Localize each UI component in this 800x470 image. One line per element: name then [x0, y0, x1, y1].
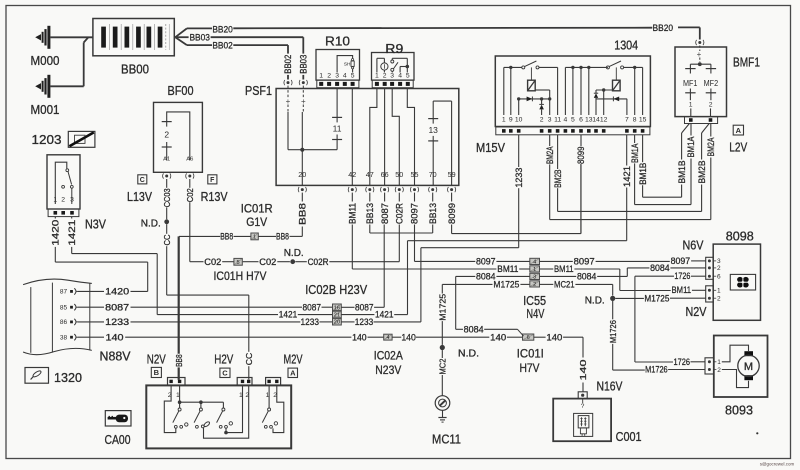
svg-text:2: 2	[717, 296, 721, 303]
wire 8097 row1	[415, 260, 476, 262]
svg-text:H7V: H7V	[520, 361, 540, 375]
svg-text:M: M	[744, 361, 753, 373]
svg-text:A6: A6	[186, 157, 193, 163]
1304 left lower rail	[519, 98, 550, 100]
wire N2V pin2 inside	[164, 385, 176, 432]
motor unit 8093	[714, 336, 768, 398]
svg-text:BB20: BB20	[653, 23, 674, 34]
wire 140 row	[78, 336, 104, 338]
svg-text:140: 140	[352, 332, 367, 342]
svg-text:3: 3	[548, 117, 552, 124]
wire BM1A to BMF1	[690, 124, 692, 136]
splice N.D. on CC	[164, 219, 169, 224]
svg-text:BM1B: BM1B	[677, 161, 687, 184]
svg-text:47: 47	[366, 170, 374, 179]
svg-text:R9: R9	[385, 41, 403, 56]
svg-text:BM2B: BM2B	[697, 161, 707, 184]
1304 left relay coil	[528, 80, 536, 91]
svg-text:M1725: M1725	[437, 294, 447, 321]
svg-text:140: 140	[546, 332, 562, 342]
svg-text:IC01H H7V: IC01H H7V	[214, 269, 267, 283]
svg-text:N.D.: N.D.	[284, 248, 304, 259]
svg-text:1: 1	[53, 196, 57, 203]
svg-text:M1725: M1725	[493, 280, 519, 290]
relay R9 switch	[391, 60, 394, 63]
connector box IC01I 6	[523, 334, 534, 340]
svg-text:21: 21	[334, 313, 340, 319]
junction node pin20	[300, 148, 304, 152]
relay R10 socket strip	[317, 80, 359, 88]
splice N.D. near N6V	[610, 296, 615, 301]
wire 1233 horizontal run	[421, 247, 519, 249]
svg-text:8: 8	[633, 117, 637, 124]
svg-text:11: 11	[333, 124, 342, 134]
wire 8097 stub	[414, 225, 416, 262]
svg-text:N88V: N88V	[100, 350, 132, 364]
connector mark BB03 into PSF1	[302, 81, 305, 84]
wire BM2B to BMF1	[702, 124, 710, 134]
svg-text:3: 3	[717, 258, 721, 265]
svg-text:F: F	[210, 177, 215, 184]
1304 socket strip M15V	[496, 127, 650, 135]
svg-text:1233: 1233	[301, 317, 320, 327]
svg-text:5: 5	[571, 117, 575, 124]
svg-text:3: 3	[533, 274, 536, 280]
svg-text:G1V: G1V	[246, 215, 267, 229]
svg-text:13: 13	[428, 125, 438, 135]
svg-text:1: 1	[717, 288, 721, 295]
svg-text:SH: SH	[344, 62, 351, 68]
wire from M001	[50, 85, 83, 87]
wire 1420 from N3V	[54, 217, 56, 219]
svg-text:140: 140	[578, 359, 588, 380]
svg-text:BM2A: BM2A	[545, 146, 555, 164]
svg-text:8097: 8097	[671, 256, 691, 266]
svg-text:2: 2	[327, 73, 331, 80]
wire C02R stub	[398, 225, 400, 262]
fuse 11	[336, 89, 338, 118]
svg-text:L2V: L2V	[729, 141, 748, 155]
svg-text:6: 6	[717, 274, 721, 281]
svg-text:8084: 8084	[650, 263, 670, 273]
wire BM11 stub	[351, 225, 353, 270]
svg-text:M1726: M1726	[645, 365, 668, 375]
switch N3V	[47, 155, 80, 209]
wire C02R	[295, 261, 307, 263]
wire M1725 column	[441, 284, 443, 293]
connector box IC02B 16	[333, 304, 342, 311]
wire BB13 bridge	[369, 225, 371, 234]
1304 right relay coil	[613, 80, 621, 91]
connector box IC55 2	[530, 281, 540, 287]
svg-text:BB8: BB8	[220, 232, 233, 242]
wire BM1B to BMF1	[682, 124, 690, 134]
connector box IC01R 1	[251, 233, 258, 240]
svg-text:BB13: BB13	[365, 203, 375, 224]
svg-text:140: 140	[106, 332, 124, 342]
svg-text:C02: C02	[204, 257, 221, 267]
svg-text:N4V: N4V	[526, 307, 544, 321]
wire BM2B horizontal run	[558, 210, 702, 212]
svg-text:BB8: BB8	[298, 203, 308, 225]
svg-text:BB03: BB03	[299, 55, 309, 74]
fuse MF1	[689, 64, 691, 68]
connector box IC01H 5	[234, 258, 242, 265]
wire BB8 row	[290, 235, 303, 237]
diode D1	[527, 97, 533, 102]
svg-text:C: C	[222, 369, 228, 378]
svg-text:BB20: BB20	[212, 25, 233, 36]
svg-text:BB02: BB02	[283, 55, 293, 74]
svg-text:BB03: BB03	[189, 33, 210, 44]
svg-text:1: 1	[502, 117, 506, 124]
svg-text:4: 4	[533, 259, 536, 265]
svg-text:8087: 8087	[303, 302, 322, 312]
diode D3	[595, 90, 597, 93]
svg-text:8098: 8098	[726, 230, 754, 244]
svg-text:1420: 1420	[50, 220, 60, 246]
wire R9 pin2 to pin 66	[384, 89, 386, 186]
1304 middle rail	[565, 66, 608, 68]
splice N.D. on C02R	[290, 259, 295, 264]
connector box IC55 1	[530, 266, 540, 272]
svg-text:20: 20	[334, 320, 340, 326]
connector box IC02B 20	[333, 318, 342, 325]
junction node BMF1	[698, 62, 702, 66]
svg-text:M000: M000	[31, 54, 60, 68]
svg-text:BB13: BB13	[428, 203, 438, 224]
svg-text:4: 4	[564, 117, 568, 124]
svg-text:55: 55	[411, 170, 419, 179]
svg-text:M1726: M1726	[608, 320, 618, 343]
connector M2V	[266, 378, 281, 386]
svg-text:BM11: BM11	[497, 264, 518, 274]
svg-text:CA00: CA00	[105, 433, 131, 447]
connector box IC55 3	[530, 273, 540, 279]
svg-text:R13V: R13V	[201, 190, 229, 204]
PSF1 bottom connector marks	[301, 188, 304, 191]
wire BM1B from 1304 pin15	[642, 135, 644, 162]
svg-text:85: 85	[60, 305, 68, 312]
svg-text:8087: 8087	[380, 203, 390, 224]
wire 140 down to N16V	[582, 337, 584, 357]
wire M1725 to N6V	[615, 297, 644, 299]
svg-text:N.D.: N.D.	[585, 295, 605, 306]
svg-text:1421: 1421	[622, 166, 632, 187]
svg-text:2: 2	[533, 282, 536, 288]
svg-text:5: 5	[406, 73, 410, 80]
motor icon M	[722, 345, 749, 362]
svg-text:2: 2	[383, 73, 387, 80]
svg-text:M1725: M1725	[644, 293, 669, 303]
component C001	[553, 399, 611, 442]
wire M1725 MC21 row4	[442, 283, 492, 285]
svg-text:2: 2	[164, 129, 169, 139]
svg-text:IC01R: IC01R	[241, 202, 273, 216]
svg-text:A1: A1	[163, 157, 170, 163]
svg-text:4: 4	[398, 73, 402, 80]
svg-text:C02R: C02R	[308, 257, 329, 267]
svg-text:BB8: BB8	[276, 232, 289, 242]
svg-text:1304: 1304	[614, 38, 638, 52]
wire BM1A horizontal run	[635, 204, 691, 206]
fan unit 8098	[713, 244, 760, 320]
svg-text:C: C	[140, 177, 145, 184]
diode D4	[613, 97, 619, 102]
svg-text:8099: 8099	[576, 146, 586, 164]
svg-text:N.D.: N.D.	[141, 219, 161, 230]
wire 8087 stub	[383, 225, 385, 308]
svg-text:1: 1	[533, 267, 536, 273]
svg-text:16: 16	[334, 305, 340, 311]
wire R10 pin5 to pin 42	[351, 89, 353, 186]
svg-text:BM2A: BM2A	[706, 138, 716, 157]
svg-text:70: 70	[429, 170, 437, 179]
svg-text:2: 2	[709, 102, 713, 109]
svg-text:N2V: N2V	[147, 352, 167, 366]
svg-text:6: 6	[579, 117, 583, 124]
svg-text:1726: 1726	[674, 271, 690, 281]
svg-text:1233: 1233	[514, 168, 524, 188]
wire 8084 lower leg	[455, 276, 457, 329]
svg-text:C02R: C02R	[395, 203, 405, 224]
svg-text:8093: 8093	[725, 403, 753, 417]
connector mark BB02 into PSF1	[287, 81, 290, 84]
svg-text:MF2: MF2	[704, 78, 719, 88]
svg-text:CC: CC	[244, 353, 254, 366]
boxed letter C bottom	[220, 368, 230, 377]
boxed letter A bottom	[288, 368, 298, 377]
switch SW1 inside box	[179, 385, 181, 402]
svg-text:3: 3	[70, 196, 74, 203]
svg-text:M2V: M2V	[284, 352, 303, 366]
connector H2V	[237, 378, 252, 386]
wire 1726 from N6V	[691, 275, 706, 277]
connector N6V upper	[706, 257, 714, 279]
svg-text:+: +	[697, 50, 702, 59]
1304 right relay switch	[606, 66, 609, 69]
svg-text:4: 4	[343, 73, 347, 80]
svg-text:1: 1	[689, 102, 693, 109]
svg-text:2: 2	[717, 367, 721, 374]
connector N6V lower	[706, 286, 714, 302]
wire BB02 inside PSF1	[287, 105, 289, 113]
connector box IC02A 4	[384, 334, 392, 340]
control unit N88V	[23, 279, 92, 285]
wire 1233 row	[78, 321, 104, 323]
svg-text:1203: 1203	[32, 133, 62, 147]
wire 8099 from 1304 pin6	[580, 135, 582, 146]
wire MC2	[441, 350, 443, 358]
svg-text:BB00: BB00	[121, 62, 149, 76]
svg-text:1: 1	[375, 73, 379, 80]
svg-text:20: 20	[298, 170, 306, 179]
fuse 2 inside BF00	[167, 112, 190, 161]
svg-text:MC2: MC2	[437, 358, 447, 374]
svg-text:4: 4	[386, 335, 389, 341]
svg-text:N16V: N16V	[597, 380, 624, 394]
svg-text:L13V: L13V	[127, 190, 153, 204]
svg-text:N6V: N6V	[683, 239, 705, 253]
wire BB8 down to N2V	[178, 236, 180, 353]
N3V socket strip	[48, 209, 79, 217]
wire BB02	[187, 44, 212, 46]
svg-text:IC55: IC55	[523, 294, 546, 308]
switch SW3 inside box	[201, 401, 224, 403]
wire SW3 to H2V pin1	[225, 428, 227, 432]
wire M2V pin2 inside	[273, 385, 284, 432]
svg-text:CC03: CC03	[162, 188, 172, 207]
wire M1726	[612, 301, 614, 319]
svg-text:42: 42	[348, 170, 356, 179]
switch unit bottom box	[146, 385, 291, 448]
svg-text:8087: 8087	[105, 302, 129, 312]
svg-text:BM2B: BM2B	[553, 169, 563, 187]
svg-text:66: 66	[381, 170, 389, 179]
svg-text:BB8: BB8	[174, 354, 184, 367]
splice N.D. near MC2	[440, 345, 445, 350]
connector box IC55 4	[530, 258, 540, 264]
fuse box PSF1	[276, 89, 459, 186]
svg-text:11: 11	[554, 117, 561, 124]
svg-text:1320: 1320	[54, 371, 82, 385]
relay R9 socket strip	[372, 80, 413, 88]
wire SW2 to H2V pin2	[204, 385, 249, 438]
svg-text:1726: 1726	[674, 357, 691, 367]
fuse 13	[428, 118, 438, 120]
relay R9 coil	[381, 63, 388, 70]
svg-text:8084: 8084	[577, 272, 597, 282]
wire BM2A to BMF1	[710, 124, 712, 137]
svg-text:1: 1	[319, 73, 323, 80]
svg-text:R10: R10	[325, 33, 350, 48]
wire BB20	[187, 27, 212, 29]
svg-text:8087: 8087	[355, 302, 374, 312]
wire from M000	[50, 36, 93, 38]
svg-text:7: 7	[625, 117, 629, 124]
component 1320 icon	[25, 368, 49, 384]
svg-text:8097: 8097	[574, 257, 595, 267]
wire R9 pin1 to pin 47	[370, 89, 377, 186]
svg-text:?: ?	[581, 403, 585, 410]
fuse box BF00	[154, 102, 203, 172]
svg-text:8084: 8084	[464, 324, 484, 334]
svg-text:IC02A: IC02A	[374, 349, 403, 363]
svg-text:M15V: M15V	[476, 141, 506, 155]
BF00 bottom connector marks	[165, 175, 168, 178]
svg-text:N3V: N3V	[85, 218, 107, 232]
maxi fuse box BMF1	[675, 47, 727, 117]
wire C02 row	[190, 261, 204, 263]
wire 1421 from 1304 pin7	[626, 135, 628, 166]
svg-text:8097: 8097	[410, 203, 420, 224]
svg-text:A: A	[290, 369, 296, 378]
svg-text:5: 5	[237, 260, 240, 266]
boxed letter C	[138, 175, 147, 184]
svg-text:MC21: MC21	[554, 280, 575, 290]
switch SW4 inside box	[268, 385, 270, 408]
svg-text:2: 2	[717, 265, 721, 272]
switch SW2 inside box	[180, 401, 201, 403]
svg-text:BM1B: BM1B	[638, 163, 648, 185]
connector box IC02B 21	[333, 311, 342, 318]
svg-text:6: 6	[527, 335, 530, 341]
svg-text:BM11: BM11	[348, 203, 358, 224]
wire 8099 to 1304	[451, 225, 453, 234]
wire BM11 row2	[352, 268, 496, 270]
svg-text:N.D.: N.D.	[458, 348, 479, 359]
svg-text:M001: M001	[31, 103, 60, 117]
svg-text:2: 2	[61, 196, 65, 203]
svg-text:9: 9	[509, 117, 513, 124]
wire 8084 row3	[456, 275, 476, 277]
fuse MF2	[710, 64, 712, 68]
wire CC	[166, 224, 168, 234]
wire BM1B horizontal run	[643, 196, 682, 198]
ground MC11	[435, 396, 450, 411]
svg-text:BF00: BF00	[168, 84, 194, 98]
svg-text:1233: 1233	[355, 317, 374, 327]
svg-text:MF1: MF1	[683, 78, 698, 88]
icon 1203	[68, 131, 95, 147]
svg-text:1421: 1421	[67, 220, 77, 246]
wire BM1A from 1304 pin8	[634, 135, 636, 143]
svg-text:BM11: BM11	[672, 285, 692, 295]
wire R9 pin5 to pin 55	[407, 89, 414, 186]
wire 1421 row	[157, 314, 278, 316]
node BB20/BB03/BB02 splitter	[174, 36, 175, 38]
svg-text:BM1A: BM1A	[686, 137, 696, 158]
svg-text:BM1A: BM1A	[630, 143, 640, 163]
diode D2	[541, 99, 543, 105]
svg-text:MC11: MC11	[432, 433, 461, 447]
boxed letter A L2V	[733, 125, 743, 135]
svg-text:N2V: N2V	[686, 305, 708, 319]
wire 1421 from N3V	[71, 217, 73, 219]
wire BB20 into BMF1	[678, 26, 700, 28]
svg-text:IC02B H23V: IC02B H23V	[305, 283, 368, 297]
svg-text:C001: C001	[616, 430, 642, 444]
battery BB00	[93, 19, 174, 56]
svg-text:2: 2	[540, 117, 544, 124]
wire R9 pin3 to pin 50	[392, 89, 399, 186]
1304 right lower rail	[596, 98, 627, 100]
svg-text:N23V: N23V	[375, 363, 401, 377]
svg-text:PSF1: PSF1	[245, 84, 272, 98]
svg-text:1420: 1420	[105, 287, 129, 297]
relay unit 1304	[495, 56, 650, 127]
svg-text:59: 59	[448, 170, 456, 179]
svg-text:BM11: BM11	[554, 264, 574, 274]
svg-text:15: 15	[639, 117, 647, 124]
svg-text:IC01I: IC01I	[517, 347, 544, 361]
key icon CA00	[105, 411, 131, 426]
svg-text:5: 5	[351, 73, 355, 80]
wire 8087 row	[78, 306, 104, 308]
svg-text:87: 87	[60, 289, 68, 296]
svg-text:8099: 8099	[447, 203, 457, 224]
boxed letter F	[208, 175, 217, 184]
svg-text:38: 38	[60, 335, 68, 342]
connector N16V	[578, 392, 587, 399]
svg-text:12: 12	[600, 117, 608, 124]
svg-text:1: 1	[717, 359, 721, 366]
relay R10	[316, 50, 360, 81]
svg-text:50: 50	[395, 170, 403, 179]
connector 8093	[705, 358, 714, 374]
wire 1421 horizontal run	[408, 240, 627, 242]
wire BB03	[175, 36, 188, 38]
